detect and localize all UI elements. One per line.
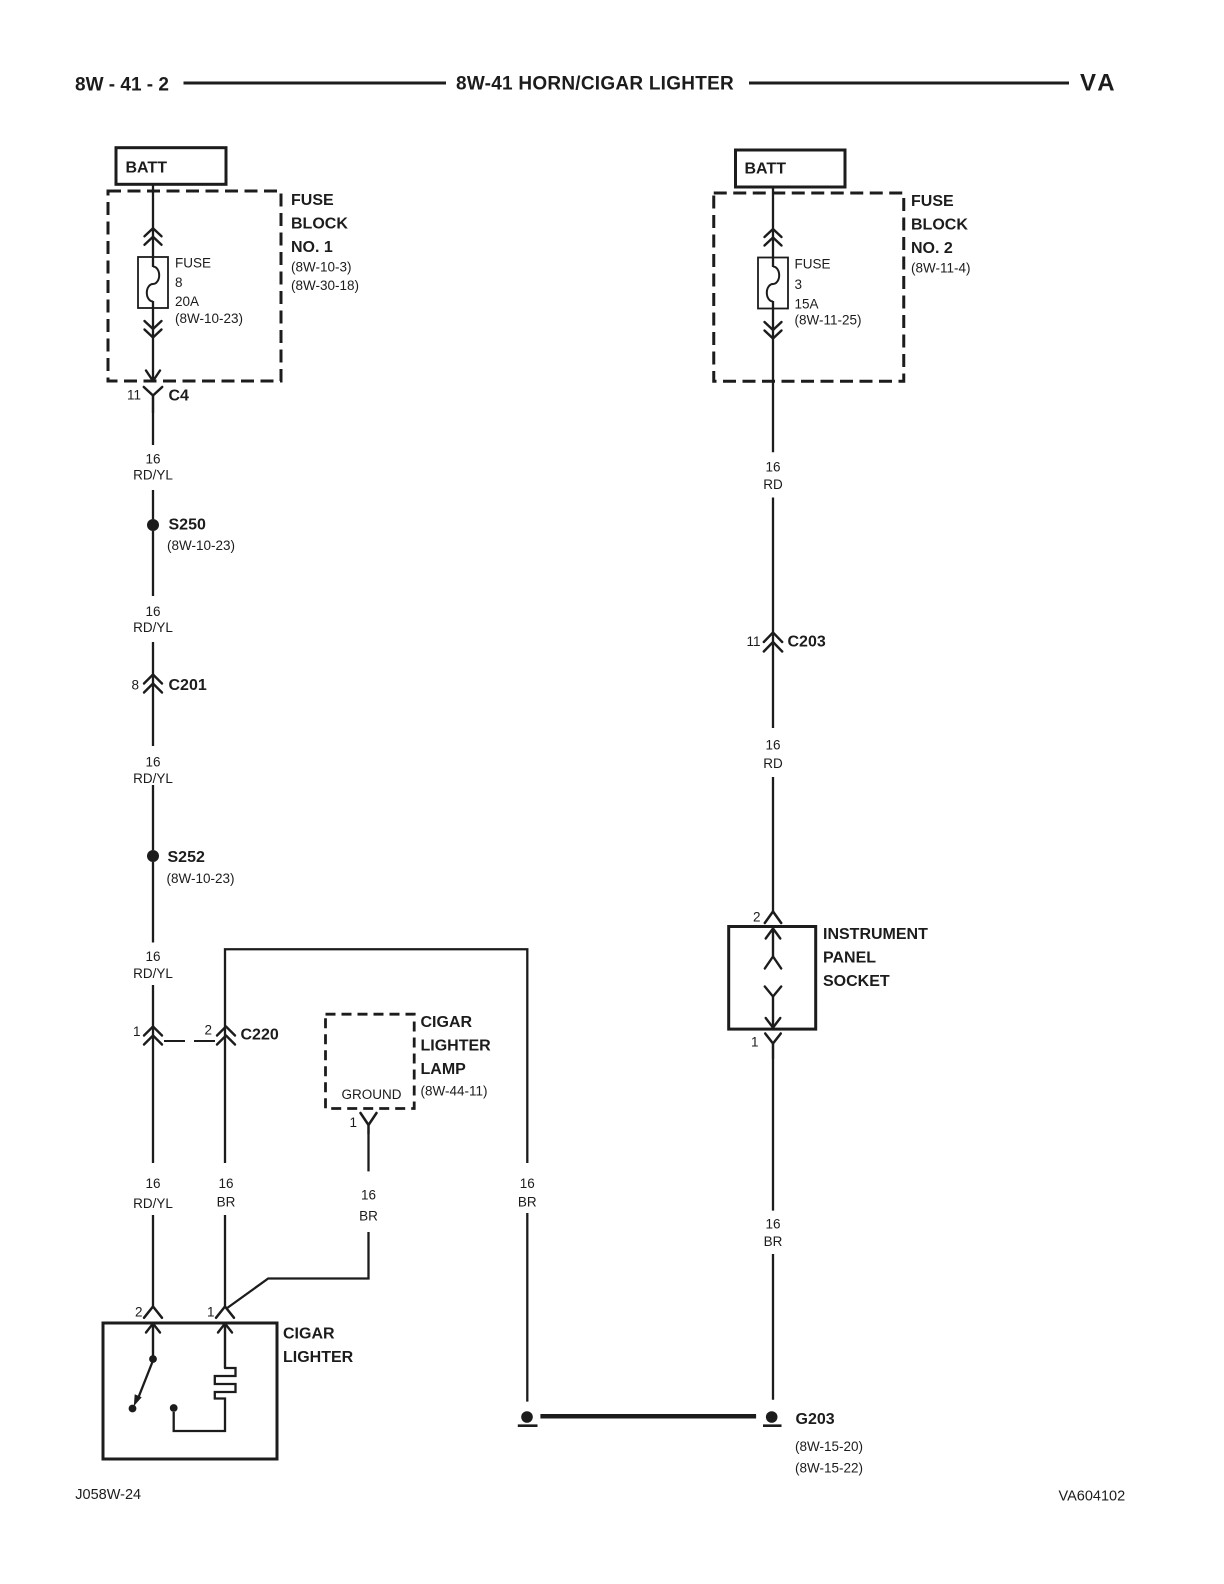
wire S252 down	[152, 862, 154, 943]
wire S250 down	[152, 531, 154, 596]
wire C220 pin2 up and over to ground drop	[225, 949, 527, 1163]
svg-text:S252: S252	[168, 849, 205, 866]
header right rule	[749, 82, 1069, 85]
fuse F3 value label	[795, 257, 862, 328]
svg-text:BATT: BATT	[745, 161, 787, 178]
fuse block no.1 dashed box	[108, 191, 281, 381]
svg-text:16: 16	[520, 1176, 535, 1191]
svg-text:RD/YL: RD/YL	[133, 966, 173, 981]
splice S252	[147, 849, 235, 886]
wire BATT to fuse F8	[152, 184, 154, 267]
cigar lighter pin 1 male arrow	[218, 1324, 232, 1369]
wire C220 pin2 down to cigar lighter pin 1	[224, 1027, 226, 1164]
node BATT (right)	[736, 150, 846, 187]
ground G203 label	[795, 1411, 863, 1476]
wire to cigar lighter pin 2	[152, 1215, 154, 1307]
svg-text:(8W-11-4): (8W-11-4)	[911, 261, 971, 276]
fuse block no.1 label	[291, 192, 359, 293]
svg-text:NO. 1: NO. 1	[291, 239, 333, 256]
connector C220	[133, 1023, 279, 1045]
switch arm arrowhead	[134, 1394, 142, 1406]
wire to ground G203	[772, 1254, 774, 1400]
svg-text:RD: RD	[763, 756, 783, 771]
svg-text:CIGAR: CIGAR	[421, 1014, 473, 1031]
svg-text:16: 16	[145, 452, 160, 467]
heater element (pin 1)	[174, 1368, 236, 1431]
wire fuse F3 out of fuse block no.2	[772, 301, 774, 452]
cigar lighter label	[283, 1326, 354, 1367]
svg-text:1: 1	[349, 1115, 357, 1130]
fuse block no.2 label	[911, 193, 971, 276]
ground dot left	[518, 1411, 538, 1426]
wire label 16 BR (lamp)	[359, 1188, 378, 1224]
svg-text:LIGHTER: LIGHTER	[421, 1038, 492, 1055]
wire label 16 RD/YL	[133, 452, 173, 483]
switch contact dot (from pin 2)	[149, 1355, 157, 1363]
svg-text:1: 1	[133, 1024, 141, 1039]
svg-text:8: 8	[175, 275, 183, 290]
splice S250	[147, 517, 235, 554]
svg-text:(8W-15-22): (8W-15-22)	[795, 1461, 863, 1476]
instrument panel socket box	[729, 927, 816, 1030]
wire C4 to S250	[152, 412, 154, 445]
svg-text:C203: C203	[788, 634, 826, 651]
socket lower contact chevron	[765, 987, 781, 1028]
socket pin 2 female connector	[753, 910, 781, 925]
fuse F8 value label	[175, 256, 243, 327]
svg-text:FUSE: FUSE	[291, 192, 334, 209]
wire into C201	[152, 642, 154, 746]
wire to C203	[772, 498, 774, 729]
cigar lighter pin 2 female connector	[135, 1305, 162, 1320]
wire BATT to fuse F3	[772, 186, 774, 267]
connector C201	[131, 675, 206, 695]
svg-text:2: 2	[204, 1023, 212, 1038]
connector C4	[127, 387, 189, 412]
svg-text:CIGAR: CIGAR	[283, 1326, 335, 1343]
fuse F8 element	[138, 257, 168, 308]
connector chevrons above fuse F8	[145, 228, 162, 245]
svg-text:(8W-11-25): (8W-11-25)	[795, 313, 862, 328]
svg-text:20A: 20A	[175, 294, 199, 309]
svg-text:2: 2	[135, 1305, 143, 1320]
svg-text:8W-41 HORN/CIGAR LIGHTER: 8W-41 HORN/CIGAR LIGHTER	[456, 74, 734, 95]
svg-text:16: 16	[218, 1176, 233, 1191]
header left rule	[184, 82, 447, 85]
cigar lighter pin 1 female connector	[207, 1305, 234, 1320]
cigar lighter lamp label	[421, 1014, 492, 1099]
svg-text:3: 3	[795, 277, 803, 292]
svg-text:16: 16	[765, 1217, 780, 1232]
svg-text:BR: BR	[359, 1209, 378, 1224]
svg-text:FUSE: FUSE	[795, 257, 831, 272]
svg-text:11: 11	[127, 388, 141, 403]
svg-text:RD/YL: RD/YL	[133, 771, 173, 786]
svg-text:16: 16	[361, 1188, 376, 1203]
fuse F3 element	[758, 258, 788, 309]
svg-text:(8W-44-11): (8W-44-11)	[421, 1084, 488, 1099]
ground bus line	[540, 1414, 756, 1419]
wire above S252	[152, 785, 154, 850]
svg-text:SOCKET: SOCKET	[823, 973, 890, 990]
cigar lighter pin 2 male arrow	[146, 1324, 160, 1356]
node BATT (left)	[116, 148, 226, 185]
wire label 16 RD/YL	[133, 1176, 173, 1211]
wire lamp ground down	[367, 1133, 369, 1171]
wire to instrument panel socket	[772, 777, 774, 912]
svg-text:(8W-10-3): (8W-10-3)	[291, 260, 352, 275]
svg-text:BLOCK: BLOCK	[911, 217, 968, 234]
ground dot right G203	[763, 1411, 782, 1426]
svg-text:LIGHTER: LIGHTER	[283, 1349, 354, 1366]
wire label 16 RD/YL	[133, 755, 173, 787]
svg-text:FUSE: FUSE	[911, 193, 954, 210]
svg-text:LAMP: LAMP	[421, 1061, 467, 1078]
svg-text:8W - 41 - 2: 8W - 41 - 2	[75, 75, 169, 96]
connector chevrons below fuse F8	[145, 321, 162, 338]
svg-text:(8W-10-23): (8W-10-23)	[175, 311, 243, 326]
cigar lighter lamp dashed box	[326, 1014, 415, 1108]
svg-text:S250: S250	[169, 517, 206, 534]
svg-text:C4: C4	[169, 388, 190, 405]
wire to splice S250	[152, 490, 154, 519]
wire into C220 pin 1	[152, 985, 154, 1163]
wire label 16 RD/YL	[133, 949, 173, 981]
svg-text:RD/YL: RD/YL	[133, 620, 173, 635]
wire label 16 RD	[763, 460, 783, 493]
connector C203	[746, 633, 825, 652]
wire fuse F8 to C4	[152, 301, 154, 380]
socket pin 1 female connector below box	[751, 1034, 781, 1059]
svg-text:16: 16	[765, 738, 780, 753]
svg-text:16: 16	[145, 755, 160, 770]
connector chevrons below fuse F3	[765, 322, 782, 339]
wire label 16 BR (C220 pin2)	[217, 1176, 236, 1210]
wire label 16 BR (ground drop)	[518, 1176, 537, 1210]
svg-text:BATT: BATT	[126, 160, 168, 177]
element return contact dot	[170, 1404, 178, 1412]
svg-text:(8W-10-23): (8W-10-23)	[167, 538, 235, 553]
socket pin 1 male arrow at bottom	[766, 1018, 781, 1028]
wire socket pin1 down	[772, 1058, 774, 1211]
svg-text:NO. 2: NO. 2	[911, 240, 953, 257]
svg-text:VA604102: VA604102	[1059, 1489, 1126, 1505]
male pin arrow at fuse block no.1 exit	[146, 371, 160, 382]
svg-text:J058W-24: J058W-24	[75, 1487, 141, 1503]
svg-text:BLOCK: BLOCK	[291, 216, 348, 233]
svg-text:16: 16	[765, 460, 780, 475]
svg-text:C220: C220	[241, 1027, 279, 1044]
wire label 16 RD	[763, 738, 783, 772]
switch arm	[138, 1361, 153, 1400]
label 16 RD/YL above C201	[133, 604, 173, 635]
svg-text:11: 11	[746, 634, 760, 649]
svg-text:RD: RD	[763, 477, 783, 492]
svg-text:INSTRUMENT: INSTRUMENT	[823, 926, 928, 943]
cigar lighter box	[103, 1323, 277, 1459]
svg-text:16: 16	[145, 949, 160, 964]
fuse block no.2 dashed box	[714, 193, 904, 381]
svg-text:1: 1	[751, 1035, 759, 1050]
connector chevrons above fuse F3	[765, 229, 782, 246]
svg-text:1: 1	[207, 1305, 215, 1320]
svg-text:FUSE: FUSE	[175, 256, 211, 271]
switch lower contact dot	[129, 1405, 137, 1413]
wire ground drop to G203	[526, 1213, 528, 1402]
svg-text:RD/YL: RD/YL	[133, 1196, 173, 1211]
lamp pin 1 connector	[349, 1113, 376, 1133]
wire lamp ground jog to cigar lighter pin 1	[227, 1232, 369, 1309]
svg-text:PANEL: PANEL	[823, 950, 876, 967]
svg-text:BR: BR	[217, 1195, 236, 1210]
svg-text:RD/YL: RD/YL	[133, 468, 173, 483]
svg-text:BR: BR	[518, 1195, 537, 1210]
svg-text:VA: VA	[1080, 70, 1118, 97]
wire label 16 BR	[764, 1217, 783, 1250]
svg-text:G203: G203	[796, 1411, 835, 1428]
socket pin 2 male arrow and contact	[766, 929, 781, 957]
svg-text:(8W-10-23): (8W-10-23)	[167, 871, 235, 886]
svg-text:C201: C201	[169, 677, 207, 694]
svg-text:BR: BR	[764, 1234, 783, 1249]
svg-text:GROUND: GROUND	[342, 1087, 402, 1102]
svg-text:15A: 15A	[795, 297, 819, 312]
svg-text:(8W-30-18): (8W-30-18)	[291, 278, 359, 293]
svg-text:2: 2	[753, 910, 761, 925]
svg-text:16: 16	[145, 1176, 160, 1191]
svg-text:8: 8	[131, 678, 139, 693]
socket upper contact chevron	[765, 957, 781, 969]
svg-text:(8W-15-20): (8W-15-20)	[795, 1439, 863, 1454]
instrument panel socket label	[823, 926, 928, 990]
svg-text:16: 16	[145, 604, 160, 619]
